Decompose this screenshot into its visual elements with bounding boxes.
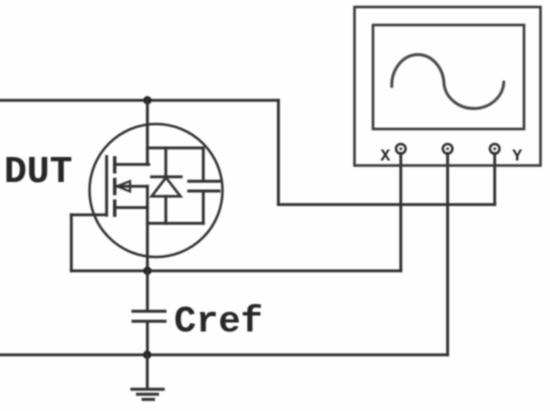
svg-text:Cref: Cref xyxy=(174,302,263,344)
capacitor Cref bottom wire xyxy=(146,322,149,355)
oscilloscope sine wave trace xyxy=(392,55,504,109)
wire: gate lead left xyxy=(71,213,106,216)
svg-text:DUT: DUT xyxy=(4,151,72,194)
wire: ground rail from left edge to middle terminal column xyxy=(0,353,448,356)
wire: source stem vertical (body lead down to lower junction) xyxy=(146,186,149,270)
terminal X binding post xyxy=(396,144,406,154)
wire: body lead with arrowhead to stem xyxy=(117,181,148,191)
diode D1 anode wire xyxy=(164,196,167,223)
oscilloscope U1 screen xyxy=(373,25,524,129)
svg-text:X: X xyxy=(380,146,390,165)
diode D1 triangle xyxy=(152,178,181,197)
wire: X terminal vertical xyxy=(399,154,402,271)
node: junction dot Cref to ground rail xyxy=(143,351,151,359)
wire: source lead to stem xyxy=(115,206,148,209)
wire: gate drop wire xyxy=(70,215,73,271)
transistor Q1 (DUT MOSFET) gate line xyxy=(105,157,108,216)
capacitor C1 (internal Coss) top wire xyxy=(202,148,205,180)
node: junction dot source to rail xyxy=(143,267,151,275)
circle: DUT package outline xyxy=(90,124,223,257)
diode D1 (body diode) cathode wire xyxy=(164,148,167,177)
wire: horizontal rail to Y terminal column xyxy=(278,203,494,206)
terminal Y binding post xyxy=(490,144,500,154)
transistor Q1 body channel bar xyxy=(113,180,116,194)
capacitor Cref top wire xyxy=(146,271,149,311)
wire: gate/source rail to X terminal xyxy=(71,269,401,272)
wire: top rail from left edge to corner xyxy=(0,99,278,102)
wire: middle terminal vertical xyxy=(446,154,449,355)
transistor Q1 source channel bar xyxy=(113,201,116,215)
diode D1 cathode bar xyxy=(152,175,182,178)
transistor Q1 drain channel bar xyxy=(113,158,116,172)
capacitor C1 plates xyxy=(189,181,219,191)
capacitor Cref plates xyxy=(133,311,165,321)
wire: drain lead to channel bar xyxy=(115,163,149,166)
wire: drain stem from top rail down xyxy=(146,100,149,164)
svg-text:Y: Y xyxy=(512,146,522,165)
ground symbol xyxy=(132,355,163,400)
wire: Y terminal vertical xyxy=(493,154,496,205)
oscilloscope U1 outer case xyxy=(355,7,541,166)
terminal middle binding post xyxy=(443,144,453,154)
wire: top rail of diode/cap branch xyxy=(147,146,203,149)
wire: bottom rail of diode/cap branch xyxy=(147,222,203,225)
node: junction dot at drain on top rail xyxy=(143,96,151,104)
capacitor C1 bottom wire xyxy=(202,192,205,223)
wire: vertical drop from top rail corner xyxy=(277,100,280,204)
